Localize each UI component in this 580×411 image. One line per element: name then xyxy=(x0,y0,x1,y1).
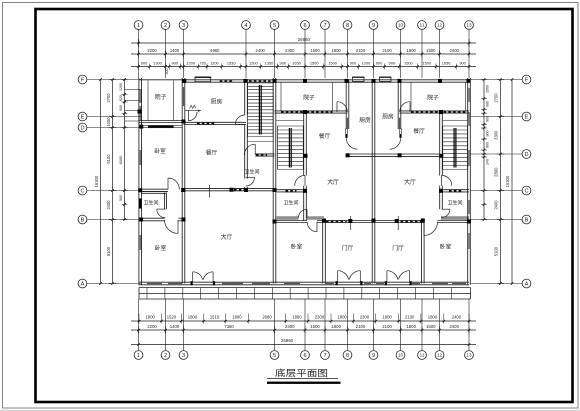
B wall hall2 bottom xyxy=(275,220,308,222)
bedroom3b door arc xyxy=(424,222,438,236)
svg-text:1800: 1800 xyxy=(188,314,198,319)
svg-text:D: D xyxy=(80,126,84,132)
svg-text:厨房: 厨房 xyxy=(382,113,394,121)
svg-text:2400: 2400 xyxy=(493,200,498,210)
stair1 xyxy=(248,82,274,84)
svg-text:6: 6 xyxy=(303,23,306,29)
svg-text:1500: 1500 xyxy=(328,61,337,66)
porch steps band at bottom xyxy=(139,287,471,289)
kitchen2 bay window top xyxy=(353,77,365,81)
top grid leader lines xyxy=(138,30,140,79)
svg-text:2100: 2100 xyxy=(356,48,366,53)
svg-text:卧室: 卧室 xyxy=(440,243,452,251)
svg-text:院子: 院子 xyxy=(427,94,439,102)
top exterior wall xyxy=(184,79,470,81)
right total 16300 xyxy=(511,80,513,284)
svg-text:900: 900 xyxy=(350,61,357,66)
svg-text:9: 9 xyxy=(372,23,375,29)
svg-text:1500: 1500 xyxy=(422,61,431,66)
svg-text:1500: 1500 xyxy=(426,324,436,329)
grid4 wall kitchen1 right xyxy=(244,80,246,115)
svg-text:1500: 1500 xyxy=(310,61,319,66)
right exterior wall xyxy=(467,78,469,285)
svg-text:16300: 16300 xyxy=(505,175,510,187)
svg-text:F: F xyxy=(525,78,529,84)
svg-text:720: 720 xyxy=(199,61,206,66)
svg-text:A: A xyxy=(525,282,529,288)
svg-text:2100: 2100 xyxy=(356,324,366,329)
svg-text:5100: 5100 xyxy=(106,154,111,164)
svg-text:240: 240 xyxy=(486,159,490,165)
svg-text:餐厅: 餐厅 xyxy=(319,132,331,140)
hall1 entrance double door xyxy=(191,281,193,285)
B wall unit1 bedroom1b top xyxy=(141,217,165,219)
svg-text:1530: 1530 xyxy=(227,61,236,66)
svg-text:1500: 1500 xyxy=(310,324,320,329)
svg-text:1800: 1800 xyxy=(232,314,242,319)
bottom page edge shadow xyxy=(0,409,580,411)
svg-text:1650: 1650 xyxy=(292,61,301,66)
bottom dimension: total 26960 xyxy=(131,344,476,346)
svg-text:门厅: 门厅 xyxy=(392,244,404,252)
svg-text:3300: 3300 xyxy=(493,130,498,140)
svg-text:13: 13 xyxy=(466,353,472,358)
svg-text:900: 900 xyxy=(119,105,123,111)
svg-text:1800: 1800 xyxy=(146,314,156,319)
stair2 top landing line xyxy=(277,120,304,122)
svg-text:2200: 2200 xyxy=(147,48,157,53)
svg-text:900: 900 xyxy=(459,61,466,66)
courtyard3 paving lines xyxy=(410,82,412,111)
svg-text:1: 1 xyxy=(137,23,140,29)
svg-text:900: 900 xyxy=(141,61,148,66)
bathroom3 bottom wall xyxy=(441,216,469,218)
svg-text:大厅: 大厅 xyxy=(221,233,233,241)
svg-text:900: 900 xyxy=(119,195,123,201)
left detail dims xyxy=(124,80,126,220)
bathroom2 top wall with window xyxy=(277,189,306,191)
stair2 xyxy=(278,125,304,127)
svg-text:院子: 院子 xyxy=(303,94,315,102)
top dimension: major spans line xyxy=(131,53,476,55)
svg-text:C: C xyxy=(524,189,528,195)
menting3 entrance double door xyxy=(385,281,387,285)
svg-text:3: 3 xyxy=(182,353,185,359)
svg-text:1500: 1500 xyxy=(404,61,413,66)
svg-text:大厅: 大厅 xyxy=(404,178,416,186)
svg-text:5100: 5100 xyxy=(106,246,111,256)
svg-text:2400: 2400 xyxy=(449,324,459,329)
svg-text:厨房: 厨房 xyxy=(211,98,223,106)
bathroom3 door arc xyxy=(442,209,450,217)
svg-text:1400: 1400 xyxy=(170,48,180,53)
left total dim 16300 xyxy=(100,80,102,284)
C wall: dining1 bottom xyxy=(184,188,247,190)
svg-text:卧室: 卧室 xyxy=(154,147,166,155)
svg-text:1300: 1300 xyxy=(153,61,162,66)
stair3 top landing line xyxy=(442,120,468,122)
svg-text:2: 2 xyxy=(164,23,167,29)
svg-text:1650: 1650 xyxy=(442,61,451,66)
svg-text:院子: 院子 xyxy=(155,93,167,101)
svg-text:11: 11 xyxy=(420,353,425,358)
svg-text:1200: 1200 xyxy=(249,61,258,66)
bathroom1b top wall xyxy=(255,153,274,155)
svg-text:1800: 1800 xyxy=(292,314,302,319)
svg-text:10: 10 xyxy=(398,23,404,28)
svg-text:12: 12 xyxy=(437,353,443,358)
svg-text:卧室: 卧室 xyxy=(155,244,167,252)
svg-text:1800: 1800 xyxy=(407,48,417,53)
svg-text:E: E xyxy=(525,115,529,121)
C wall bathroom1b bottom xyxy=(246,188,275,190)
svg-text:1400: 1400 xyxy=(170,324,180,329)
grid11b wall bathroom3/stair3 left xyxy=(439,112,441,175)
svg-text:1: 1 xyxy=(137,353,140,359)
bathroom3 top wall with window xyxy=(441,189,469,191)
bathroom2 bottom wall xyxy=(277,216,299,218)
stair3 door arc xyxy=(442,175,452,185)
svg-text:2100: 2100 xyxy=(382,324,392,329)
bottom grid leaders xyxy=(138,299,140,350)
svg-text:5100: 5100 xyxy=(493,246,498,256)
svg-text:900: 900 xyxy=(171,61,178,66)
svg-text:1200: 1200 xyxy=(186,61,195,66)
svg-text:3: 3 xyxy=(182,23,185,29)
svg-text:900: 900 xyxy=(389,61,396,66)
dining1 door tick xyxy=(208,185,210,198)
grid9 party wall xyxy=(371,80,373,284)
right grid bubbles F E D C B A xyxy=(522,75,531,84)
svg-text:2680: 2680 xyxy=(262,314,272,319)
grid5 wall xyxy=(272,78,274,161)
bedroom1b door arc xyxy=(165,220,179,234)
svg-text:900: 900 xyxy=(280,61,287,66)
svg-text:5: 5 xyxy=(273,353,276,359)
grid8 wall kitchen2 left xyxy=(345,80,347,129)
svg-text:门厅: 门厅 xyxy=(342,244,354,252)
svg-text:620: 620 xyxy=(119,95,123,101)
svg-text:2200: 2200 xyxy=(147,324,157,329)
svg-text:A: A xyxy=(81,282,85,288)
svg-text:C: C xyxy=(80,189,84,195)
bathroom1b door arc xyxy=(246,177,255,186)
stair3 xyxy=(443,125,468,127)
grid10 wall kitchen3 right xyxy=(397,80,399,129)
svg-text:6: 6 xyxy=(303,353,306,359)
svg-text:4960: 4960 xyxy=(210,48,220,53)
grid3 wall (vertical) xyxy=(181,78,183,123)
svg-text:900: 900 xyxy=(486,131,490,137)
bathroom1b entry door arc from landing xyxy=(244,144,255,155)
svg-text:1350: 1350 xyxy=(265,61,274,66)
svg-text:2400: 2400 xyxy=(285,324,295,329)
svg-text:4: 4 xyxy=(244,23,247,29)
svg-text:1510: 1510 xyxy=(210,314,220,319)
left exterior wall xyxy=(138,78,140,285)
svg-text:5: 5 xyxy=(273,23,276,29)
kitchen3 bay window top xyxy=(380,77,392,81)
svg-text:1800: 1800 xyxy=(406,324,416,329)
menting2 entrance double door xyxy=(336,281,338,285)
bottom grid bubbles xyxy=(134,351,143,360)
svg-text:2400: 2400 xyxy=(452,314,462,319)
svg-text:10: 10 xyxy=(398,353,404,358)
svg-text:8: 8 xyxy=(346,353,349,359)
stair2 door arc xyxy=(295,175,305,185)
stair1 top window xyxy=(249,79,271,81)
svg-text:1500: 1500 xyxy=(310,48,320,53)
courtyard1 paving lines xyxy=(147,80,149,120)
svg-text:厨房: 厨房 xyxy=(359,116,371,124)
B wall hall3 bottom xyxy=(374,220,425,222)
bathroom1 door arc xyxy=(157,209,166,218)
bedroom1 door arc xyxy=(168,178,179,189)
svg-text:12: 12 xyxy=(437,23,443,28)
bathroom1 left: walls xyxy=(141,191,167,193)
left major dims xyxy=(112,80,114,284)
svg-text:11: 11 xyxy=(420,23,425,28)
svg-text:2400: 2400 xyxy=(285,48,295,53)
svg-text:1520: 1520 xyxy=(167,314,177,319)
bottom dimension: detail line xyxy=(131,320,476,322)
svg-text:2100: 2100 xyxy=(382,48,392,53)
svg-text:1800: 1800 xyxy=(331,324,341,329)
svg-text:16300: 16300 xyxy=(94,175,99,187)
courtyard2 gate arc xyxy=(337,102,347,112)
svg-text:卫生间: 卫生间 xyxy=(283,199,298,206)
kitchen2 door leaf and arc xyxy=(346,129,348,138)
svg-text:2400: 2400 xyxy=(450,48,460,53)
svg-text:1200: 1200 xyxy=(362,61,371,66)
left wall windows xyxy=(138,89,140,103)
kitchen1 bay window top xyxy=(195,77,211,82)
D-right wall under kitchens xyxy=(346,153,440,155)
svg-text:1560: 1560 xyxy=(486,85,490,93)
bedroom2b door arc xyxy=(307,222,317,232)
right detail dims xyxy=(483,80,485,220)
courtyard2 paving lines xyxy=(280,82,282,111)
svg-text:900: 900 xyxy=(486,142,490,148)
svg-text:2: 2 xyxy=(164,353,167,359)
svg-text:D: D xyxy=(524,152,528,158)
svg-text:2700: 2700 xyxy=(493,93,498,103)
svg-text:26960: 26960 xyxy=(298,37,311,42)
bottom exterior wall A xyxy=(139,281,470,283)
svg-text:B: B xyxy=(525,218,529,224)
kitchen1 bottom wall xyxy=(184,121,247,123)
top dimension: total 26960 line xyxy=(131,42,476,44)
courtyard1 bottom wall xyxy=(139,120,184,122)
svg-text:8: 8 xyxy=(346,23,349,29)
svg-text:1800: 1800 xyxy=(382,314,392,319)
svg-text:E: E xyxy=(81,115,85,121)
top dimension: detail spans line xyxy=(131,66,476,68)
svg-text:1800: 1800 xyxy=(332,48,342,53)
kitchen3 door leaf and arc xyxy=(400,129,402,138)
svg-text:1800: 1800 xyxy=(428,314,438,319)
svg-text:1800: 1800 xyxy=(337,314,347,319)
courtyard2 bottom wall xyxy=(275,110,348,112)
svg-text:6090: 6090 xyxy=(118,155,123,164)
bedroom3b left wall grid11 xyxy=(421,222,423,284)
svg-text:7: 7 xyxy=(323,353,326,359)
svg-text:餐厅: 餐厅 xyxy=(413,127,425,135)
svg-text:900: 900 xyxy=(486,101,490,107)
svg-text:1200: 1200 xyxy=(119,83,123,91)
svg-text:1000: 1000 xyxy=(106,117,111,127)
svg-text:13: 13 xyxy=(466,23,472,28)
svg-text:26960: 26960 xyxy=(281,338,294,343)
svg-text:7: 7 xyxy=(323,23,326,29)
bedroom2b right wall grid7 xyxy=(322,222,324,284)
svg-text:卫生间: 卫生间 xyxy=(244,169,259,176)
svg-text:2800: 2800 xyxy=(493,167,498,177)
menting inner door ticks xyxy=(350,216,352,230)
svg-text:900: 900 xyxy=(376,61,383,66)
kitchen1 left wall window xyxy=(181,87,183,106)
bottom wall windows xyxy=(147,281,162,283)
svg-text:F: F xyxy=(81,78,85,84)
svg-text:7360: 7360 xyxy=(224,324,234,329)
svg-text:底层平面图: 底层平面图 xyxy=(275,367,328,378)
svg-text:2300: 2300 xyxy=(315,314,325,319)
svg-text:9: 9 xyxy=(372,353,375,359)
svg-text:2400: 2400 xyxy=(256,48,266,53)
svg-text:2700: 2700 xyxy=(106,93,111,103)
svg-text:2300: 2300 xyxy=(360,314,370,319)
courtyard3 gate arc xyxy=(400,102,410,112)
svg-text:2400: 2400 xyxy=(106,200,111,210)
svg-text:餐厅: 餐厅 xyxy=(206,149,218,157)
bottom dimension: major line xyxy=(131,329,476,331)
column squares xyxy=(182,79,186,83)
svg-text:1200: 1200 xyxy=(210,61,219,66)
top grid bubbles 1-13 xyxy=(134,21,143,30)
wall grid6 vertical xyxy=(303,112,305,175)
stair1 bottom landing xyxy=(248,141,274,143)
bedroom1 top window wall xyxy=(148,126,174,128)
C wall: bedroom1 bottom xyxy=(141,188,168,190)
top wall windows xyxy=(220,79,233,81)
kitchen1 left door xyxy=(187,110,189,120)
right major dims xyxy=(500,80,502,284)
svg-text:900: 900 xyxy=(486,116,490,122)
svg-text:卫生间: 卫生间 xyxy=(143,199,158,206)
left grid bubbles F E D C B A xyxy=(78,75,87,84)
kitchen1 right door opening arc xyxy=(235,115,245,125)
svg-text:卫生间: 卫生间 xyxy=(447,199,462,206)
svg-text:卧室: 卧室 xyxy=(291,243,303,251)
svg-text:1500: 1500 xyxy=(426,48,436,53)
courtyard1 top wall xyxy=(139,79,185,81)
svg-text:B: B xyxy=(81,218,85,224)
svg-text:2100: 2100 xyxy=(405,314,415,319)
svg-text:大厅: 大厅 xyxy=(327,178,339,186)
bathroom2 door arc xyxy=(299,209,308,218)
courtyard3 bottom wall xyxy=(400,110,470,112)
